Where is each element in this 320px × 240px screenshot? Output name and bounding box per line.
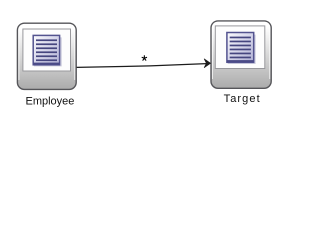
wire: association line Employee to Target xyxy=(77,64,207,68)
icon Employee: thick bottom border xyxy=(33,63,59,65)
node Employee: white inner panel xyxy=(23,29,71,71)
icon Employee: document shadow xyxy=(35,38,62,66)
node Target: white inner panel xyxy=(215,26,264,69)
node Target: outer rounded box xyxy=(211,21,271,88)
node Employee: outer rounded box xyxy=(17,23,76,89)
node Employee: inner bevel highlight xyxy=(19,25,75,80)
icon Employee: document box xyxy=(33,35,59,64)
svg-text:Employee: Employee xyxy=(26,96,75,108)
svg-text:Target: Target xyxy=(224,93,261,105)
icon Target: document box xyxy=(227,33,254,63)
icon Target: thick bottom border xyxy=(227,60,254,62)
icon Employee: text stripes xyxy=(36,39,57,61)
icon Target: document shadow xyxy=(228,35,255,63)
label * multiplicity xyxy=(142,55,147,60)
arrowhead at Target xyxy=(204,59,211,68)
icon Target: text stripes xyxy=(230,37,251,59)
node Target: inner bevel highlight xyxy=(213,22,270,79)
